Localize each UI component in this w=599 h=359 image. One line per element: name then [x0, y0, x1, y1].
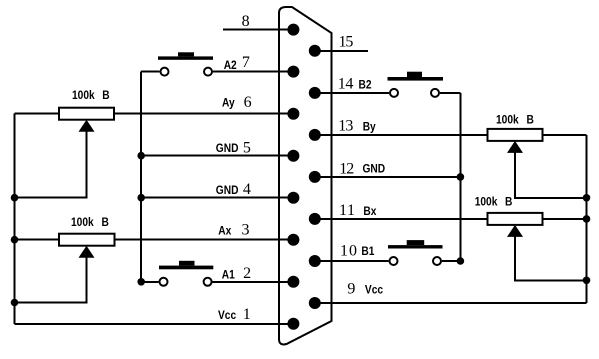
- svg-text:GND: GND: [216, 142, 239, 155]
- wire Ax R2 to pin3: [115, 239, 295, 241]
- pin 15: [309, 45, 321, 57]
- pin 1: [287, 318, 299, 330]
- wire A1 right to pin2: [213, 281, 294, 283]
- svg-text:6: 6: [244, 94, 252, 111]
- wire R3 right lead: [543, 134, 587, 136]
- connector J1 DB15 shell: [279, 7, 332, 344]
- button A1: [159, 261, 213, 286]
- svg-text:A2: A2: [224, 59, 237, 72]
- pin 6: [287, 108, 299, 120]
- wire By pin13 to R3: [315, 134, 488, 136]
- svg-text:Vcc: Vcc: [218, 309, 236, 322]
- pin 11: [309, 213, 321, 225]
- svg-text:100k: 100k: [71, 216, 94, 229]
- svg-text:GND: GND: [363, 163, 386, 176]
- svg-text:100k: 100k: [496, 114, 519, 127]
- button B1: [388, 240, 443, 265]
- wire R4 right lead: [543, 218, 587, 220]
- junction GND12 on B bus: [457, 173, 465, 181]
- svg-text:14: 14: [338, 75, 354, 92]
- svg-text:8: 8: [242, 13, 250, 30]
- wire Ay R1 to pin6: [114, 113, 294, 115]
- svg-text:3: 3: [242, 222, 250, 239]
- junction R1 wiper on Vcc bus: [11, 194, 19, 202]
- pin 5: [287, 150, 299, 162]
- svg-text:11: 11: [339, 202, 355, 219]
- wire pin10 to B1 left: [315, 260, 389, 262]
- junction R4 lead on right Vcc bus: [583, 215, 591, 223]
- svg-text:Ay: Ay: [222, 97, 235, 110]
- svg-text:2: 2: [243, 265, 251, 282]
- svg-text:Ax: Ax: [218, 225, 232, 238]
- wire R1 left lead: [15, 113, 60, 115]
- wire R3 wiper stem: [515, 147, 587, 198]
- svg-text:GND: GND: [216, 184, 239, 197]
- wire A2 left to bus: [141, 71, 159, 73]
- junction GND4 on A bus: [137, 194, 145, 202]
- wire R4 wiper stem: [515, 231, 587, 280]
- button A2: [158, 52, 213, 75]
- svg-text:10: 10: [340, 243, 357, 260]
- svg-text:100k: 100k: [72, 89, 95, 102]
- pin 10: [309, 255, 321, 267]
- svg-text:100k: 100k: [475, 196, 498, 209]
- wire GND pin12 to bus: [315, 176, 460, 178]
- wire B1 right to bus: [442, 260, 460, 262]
- svg-text:12: 12: [339, 160, 354, 177]
- svg-text:7: 7: [242, 54, 250, 71]
- wire GND to pin4: [141, 197, 294, 199]
- wire A2 right to pin7: [213, 71, 294, 73]
- pin 9: [309, 297, 321, 309]
- potentiometer R1 100k B: [59, 108, 114, 132]
- junction GND5 on A bus: [137, 152, 145, 160]
- junction R2 lead on Vcc bus: [11, 236, 19, 244]
- wire right Vcc bus vertical: [586, 135, 588, 303]
- wire right B bus vertical: [459, 93, 461, 261]
- wire R1 wiper stem: [15, 126, 87, 198]
- svg-text:By: By: [363, 121, 377, 134]
- svg-text:1: 1: [243, 306, 251, 323]
- potentiometer R3 100k B: [488, 129, 543, 153]
- potentiometer R4 100k B: [488, 213, 543, 237]
- junction A1 on A bus: [137, 278, 145, 286]
- pin 14: [309, 87, 321, 99]
- wire A1 left to bus: [141, 281, 158, 283]
- svg-text:9: 9: [347, 281, 355, 298]
- junction R2 wiper on Vcc bus: [11, 299, 19, 307]
- wire Bx pin11 to R4: [315, 218, 488, 220]
- junction R3 wiper on right Vcc bus: [583, 194, 591, 202]
- wire GND to pin5: [141, 155, 294, 157]
- svg-text:B: B: [505, 196, 512, 209]
- wire pin8 stub: [223, 29, 294, 31]
- svg-text:B1: B1: [361, 245, 374, 258]
- pin 7: [287, 66, 299, 78]
- button B2: [388, 72, 444, 97]
- pin 4: [287, 192, 299, 204]
- svg-text:13: 13: [338, 118, 353, 135]
- pin 2: [287, 276, 299, 288]
- pin 8: [287, 24, 299, 36]
- svg-text:Bx: Bx: [363, 205, 377, 218]
- junction B1 on B bus: [457, 257, 465, 265]
- wire R2 left lead: [15, 239, 60, 241]
- svg-text:15: 15: [339, 34, 354, 51]
- wire left Vcc bus vertical: [14, 114, 16, 324]
- wire B2 right to bus: [440, 92, 460, 94]
- wire Vcc pin9: [315, 302, 587, 304]
- wire R2 wiper stem: [15, 252, 87, 303]
- pin 3: [287, 234, 299, 246]
- wire left A bus vertical: [140, 72, 142, 282]
- wire Vcc to pin1: [15, 323, 295, 325]
- svg-text:B2: B2: [359, 79, 372, 92]
- junction R4 wiper on right Vcc bus: [583, 277, 591, 285]
- pin 13: [309, 129, 321, 141]
- svg-text:4: 4: [243, 181, 251, 198]
- wire pin14 to B2 left: [315, 92, 389, 94]
- svg-text:Vcc: Vcc: [365, 284, 383, 297]
- svg-text:A1: A1: [222, 269, 235, 282]
- svg-text:B: B: [527, 114, 534, 127]
- potentiometer R2 100k B: [59, 234, 115, 258]
- svg-text:B: B: [102, 89, 109, 102]
- svg-text:5: 5: [243, 140, 251, 157]
- wire pin15 stub: [315, 50, 368, 52]
- pin 12: [309, 171, 321, 183]
- svg-text:B: B: [102, 216, 109, 229]
